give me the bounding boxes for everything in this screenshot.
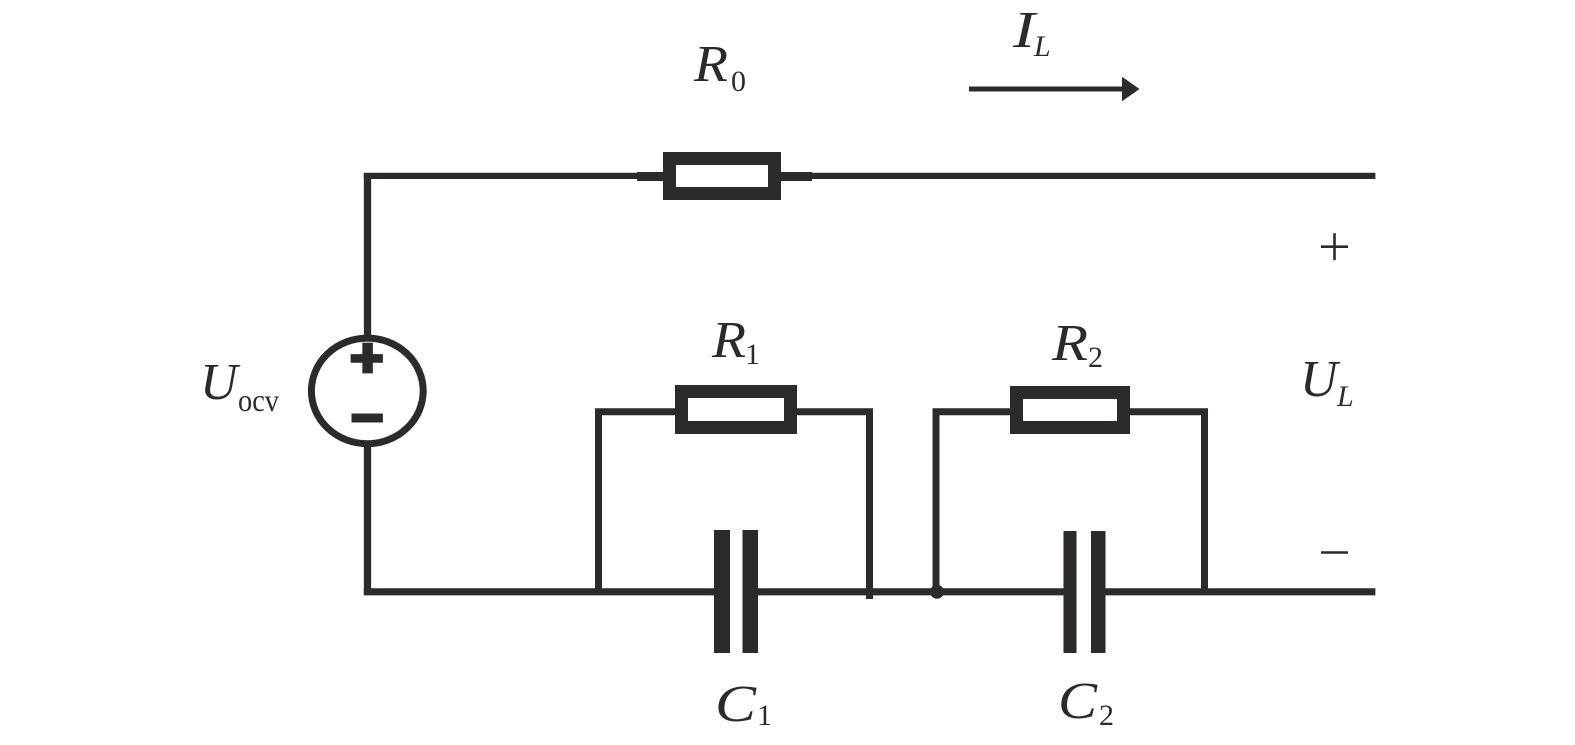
svg-text:R: R	[693, 36, 728, 93]
terminal minus sign	[1321, 551, 1348, 554]
wire: bottom rail segment 1 (node between source and C1)	[364, 588, 714, 595]
resistor R0 lead right	[779, 172, 812, 181]
junction dot on bottom rail at R2C2 left vertical	[930, 585, 944, 599]
svg-text:2: 2	[1088, 341, 1103, 374]
svg-text:2: 2	[1099, 699, 1114, 732]
svg-text:U: U	[1300, 351, 1341, 408]
svg-text:1: 1	[757, 699, 772, 732]
svg-text:R: R	[711, 312, 746, 369]
svg-text:1: 1	[745, 338, 760, 371]
wire: source bottom lead to bottom rail (vertical)	[364, 442, 371, 595]
svg-text:C: C	[715, 676, 758, 733]
voltage source U_ocv	[311, 338, 423, 444]
wire: R2 top-right lead	[1124, 408, 1208, 415]
wire: R1C1 loop left vertical	[595, 409, 602, 596]
svg-text:C: C	[1058, 673, 1098, 730]
wire: bottom rail segment 3 (to negative terminal)	[1106, 588, 1376, 595]
svg-text:0: 0	[731, 65, 746, 98]
resistor R0	[670, 159, 775, 194]
terminal plus sign	[1321, 233, 1348, 260]
wire: R1C1 loop right vertical	[866, 409, 873, 600]
wire: R2C2 loop left vertical	[933, 409, 940, 596]
svg-text:U: U	[200, 354, 241, 411]
resistor R1	[682, 392, 791, 428]
resistor R2	[1017, 393, 1124, 428]
capacitor C1	[714, 530, 758, 653]
wire: bottom rail segment 2 (node between C1 and C2)	[758, 588, 1064, 595]
wire: R1 top-right lead	[791, 408, 873, 415]
wire: R2C2 loop right vertical	[1201, 409, 1208, 596]
svg-text:L: L	[1033, 30, 1051, 63]
wire: R1 top-left lead	[595, 408, 681, 415]
wire: R2 top-left lead	[933, 408, 1017, 415]
wire: top rail right segment	[779, 173, 1375, 179]
wire: source top lead to top rail (vertical)	[364, 173, 371, 340]
resistor R0 lead left	[637, 172, 668, 181]
current arrow I_L	[969, 87, 1125, 92]
svg-text:ocv: ocv	[238, 382, 279, 418]
svg-text:R: R	[1051, 315, 1088, 372]
capacitor C2	[1064, 531, 1106, 653]
wire: top rail left segment	[364, 173, 668, 179]
svg-text:L: L	[1336, 380, 1354, 413]
